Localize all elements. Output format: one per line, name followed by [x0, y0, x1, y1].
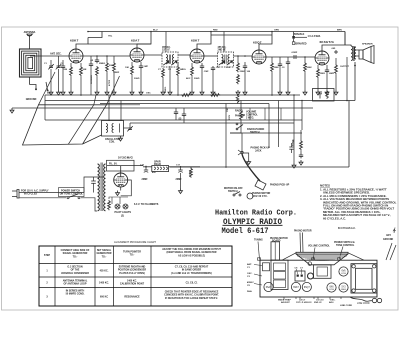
svg-text:(1st AND 2nd I.F. TRANSFORMERS: (1st AND 2nd I.F. TRANSFORMERS)	[171, 272, 212, 275]
svg-text:6SK7: 6SK7	[293, 287, 299, 289]
svg-text:ADJUST: ADJUST	[281, 301, 290, 304]
bus 5	[45, 119, 302, 121]
svg-text:SPEAKER: SPEAKER	[362, 43, 373, 46]
wire output to field	[349, 62, 356, 167]
line cord	[350, 297, 372, 301]
svg-text:BRN-RED: BRN-RED	[296, 43, 307, 46]
B+ bus	[45, 100, 355, 102]
svg-text:250K: 250K	[240, 71, 246, 73]
svg-text:AVC: AVC	[47, 92, 52, 95]
svg-text:ANT.: ANT.	[247, 263, 252, 266]
top bus wire B+	[211, 34, 272, 36]
speaker top view	[296, 252, 348, 264]
svg-text:YEL: YEL	[108, 36, 113, 38]
alignment table	[39, 240, 232, 306]
svg-text:6SK7: 6SK7	[191, 39, 200, 43]
svg-text:DIAL: DIAL	[247, 290, 253, 293]
svg-text:AVC: AVC	[186, 77, 191, 80]
svg-text:JACK: JACK	[255, 149, 262, 152]
wire: loop to V1 grid	[50, 55, 69, 57]
svg-text:GROUND: GROUND	[26, 98, 37, 101]
svg-text:10K: 10K	[125, 67, 129, 69]
svg-text:FIELD: FIELD	[154, 163, 161, 166]
rectifier filament box	[107, 160, 135, 171]
cap on filament bus	[174, 110, 178, 115]
wire switch to jack	[241, 133, 243, 151]
filament bus	[20, 107, 313, 109]
svg-text:RED: RED	[213, 30, 218, 32]
svg-text:ON TONE CONTROL: ON TONE CONTROL	[60, 193, 84, 196]
V2 cathode components	[131, 65, 134, 75]
feedback loop wires	[302, 101, 349, 168]
cap C23	[286, 60, 290, 65]
svg-text:BRN-BLK: BRN-BLK	[294, 33, 305, 36]
svg-text:OSC.: OSC.	[330, 300, 336, 302]
svg-text:PHONO PICK-UP: PHONO PICK-UP	[270, 184, 290, 187]
svg-text:PILOT LIGHTS: PILOT LIGHTS	[115, 211, 132, 214]
1st IF can with trimmers C7 C8	[295, 271, 305, 281]
svg-text:BLU: BLU	[153, 30, 158, 32]
svg-text:47000: 47000	[108, 79, 111, 86]
terminal tags top right	[292, 32, 321, 46]
svg-text:C9 C10: C9 C10	[316, 300, 324, 302]
speaker braces	[282, 253, 364, 260]
tone control resistor	[292, 130, 303, 165]
svg-text:.01MF: .01MF	[291, 52, 298, 54]
svg-text:115V. 60 CYC.: 115V. 60 CYC.	[252, 195, 268, 198]
grid resistor V2	[106, 62, 109, 72]
tube socket 5Y3	[339, 283, 348, 292]
cap C21	[89, 62, 93, 67]
svg-text:RADIO: RADIO	[235, 110, 243, 113]
svg-text:50 MMFD COND.: 50 MMFD COND.	[66, 293, 85, 296]
svg-text:TO:-: TO:-	[130, 254, 135, 257]
svg-text:LINE CORD: LINE CORD	[340, 305, 352, 307]
tube V4 6SQ7	[252, 50, 266, 64]
svg-text:600 KC: 600 KC	[100, 296, 108, 299]
pilot lamps	[108, 197, 159, 218]
power transformer top view	[351, 264, 377, 293]
tube socket 6V6	[339, 267, 348, 276]
svg-text:2MEG: 2MEG	[165, 87, 167, 93]
svg-text:60 CYCLES A.C.: 60 CYCLES A.C.	[338, 227, 356, 230]
cap C20	[61, 64, 65, 69]
gang condenser top view	[271, 260, 288, 289]
svg-text:C3, C8, C1: C3, C8, C1	[186, 282, 198, 285]
svg-text:60 CYCLES, A.C.: 60 CYCLES, A.C.	[323, 216, 346, 220]
wire volume control to bus	[240, 101, 242, 107]
svg-text:15K: 15K	[227, 108, 229, 112]
ground terminal	[46, 82, 49, 92]
notes block	[320, 184, 397, 221]
svg-text:LINE CORD: LINE CORD	[357, 303, 370, 305]
coupling wire to V5	[266, 56, 315, 58]
osc coil ground	[119, 136, 123, 141]
svg-text:6SA7: 6SA7	[131, 39, 140, 43]
svg-text:PHONO: PHONO	[235, 115, 244, 118]
svg-text:TONE CONTROL: TONE CONTROL	[336, 245, 355, 247]
svg-text:VOLUME CONTROL: VOLUME CONTROL	[308, 246, 330, 248]
svg-text:.1MF: .1MF	[204, 71, 210, 73]
wire V2 plate to IFT1	[144, 54, 162, 56]
phono bus wire	[230, 132, 302, 134]
svg-text:300Ω: 300Ω	[134, 78, 140, 80]
svg-text:VARIABLE CONDENSER: VARIABLE CONDENSER	[61, 272, 89, 275]
tube socket 6K6GT	[327, 283, 336, 292]
resistor on avc drop	[236, 95, 239, 104]
svg-text:OSC.: OSC.	[247, 273, 253, 275]
svg-text:ALIGNMENT PROCEDURE CHART: ALIGNMENT PROCEDURE CHART	[114, 240, 156, 244]
volume control	[240, 106, 259, 126]
tube socket 6SK7	[291, 282, 300, 291]
ground lead of loop	[26, 77, 37, 101]
svg-text:ANT. SEC.: ANT. SEC.	[50, 53, 62, 56]
resistor R22	[335, 64, 338, 74]
shielded cable to pickup	[242, 154, 260, 181]
V4 plate load resistor	[271, 62, 274, 72]
osc coil risers	[108, 95, 110, 121]
leader ticks below chassis	[284, 297, 341, 300]
svg-text:.1MF: .1MF	[143, 66, 149, 68]
dial shaft circle	[308, 262, 312, 266]
svg-text:PHONO MOTOR: PHONO MOTOR	[294, 231, 312, 233]
svg-text:GRN: GRN	[274, 30, 279, 32]
osc adj hole	[308, 273, 314, 279]
labels below chassis	[278, 299, 352, 307]
wire volume control bottom	[230, 126, 241, 133]
V5 cathode resistor	[317, 68, 320, 78]
labels left of chassis	[247, 263, 262, 293]
AVC bus	[45, 94, 300, 96]
svg-text:2MEG: 2MEG	[99, 63, 105, 65]
svg-text:COIL: COIL	[109, 140, 115, 143]
bus 3	[100, 103, 269, 105]
svg-text:FIL. 5V.: FIL. 5V.	[109, 163, 118, 166]
svg-text:OSC: OSC	[146, 93, 151, 95]
svg-text:GT/G: GT/G	[329, 289, 334, 291]
svg-text:ANTENNA: ANTENNA	[24, 31, 36, 34]
IFT2 secondary to V4	[234, 55, 253, 57]
svg-text:300Ω: 300Ω	[194, 78, 200, 80]
svg-text:POWER SWITCH &: POWER SWITCH &	[334, 242, 355, 244]
svg-text:500K: 500K	[307, 67, 313, 69]
antenna ground leads top right	[383, 228, 396, 261]
diode load resistors	[237, 62, 240, 72]
svg-text:CALIBRATION POINT: CALIBRATION POINT	[120, 283, 145, 286]
wire V1 plate to V2	[83, 55, 102, 57]
svg-text:GROUND: GROUND	[383, 239, 394, 241]
motor on-off switch	[224, 187, 243, 196]
svg-text:SWITCH: SWITCH	[228, 190, 238, 193]
bus 6	[130, 122, 294, 124]
wire bus middle	[170, 166, 302, 168]
rectifier tube 5Y3	[114, 173, 128, 187]
coupling cap C3	[95, 58, 99, 63]
radio phono switch	[235, 110, 264, 134]
labels above chassis	[254, 227, 356, 260]
tube socket 6SQ7	[302, 282, 311, 291]
svg-text:250K: 250K	[274, 67, 280, 69]
output transformer	[338, 32, 356, 62]
wire to V2 grid	[102, 55, 130, 57]
wire V3 plate to IFT2	[204, 55, 218, 57]
svg-text:5Y3GM/G: 5Y3GM/G	[118, 156, 134, 160]
antenna symbol	[24, 31, 36, 40]
ground on wire 294	[292, 163, 296, 168]
line filter capacitor	[84, 177, 104, 193]
svg-text:STEP: STEP	[44, 254, 51, 257]
svg-text:V.COIL: V.COIL	[190, 169, 192, 177]
svg-text:(2): (2)	[121, 215, 124, 218]
tube socket 6SA7	[264, 282, 273, 291]
capacitor near switch	[289, 143, 293, 153]
value labels top schematic	[44, 43, 373, 178]
left bus verticals	[44, 95, 46, 120]
phono motor	[247, 192, 271, 199]
svg-text:6SA7: 6SA7	[266, 286, 272, 289]
svg-text:455 KC.: 455 KC.	[100, 270, 109, 273]
resistor R20	[113, 62, 116, 72]
tube V3 6SK7 IF	[190, 49, 204, 63]
svg-text:OF ANTENNA LOOP: OF ANTENNA LOOP	[64, 283, 87, 286]
svg-text:20MF: 20MF	[142, 178, 149, 181]
svg-text:6SK7: 6SK7	[70, 39, 79, 43]
svg-text:20MF: 20MF	[176, 178, 183, 181]
svg-text:6K6GT/G: 6K6GT/G	[320, 40, 335, 44]
tube V2 6SA7 converter	[130, 48, 144, 62]
resistor after filter	[190, 168, 193, 178]
svg-text:Model 6-617: Model 6-617	[222, 226, 269, 236]
cap on filament bus 2	[182, 112, 186, 117]
V1 screen resistor	[80, 66, 83, 76]
tone capacitor across primary	[334, 50, 338, 54]
avc bus resistor 2	[210, 94, 220, 97]
svg-text:GM/G: GM/G	[341, 289, 347, 291]
coupling capacitor	[294, 55, 296, 59]
grid resistor V5	[304, 62, 307, 72]
trimmer C2	[56, 64, 62, 69]
svg-text:WAVE TRAP: WAVE TRAP	[278, 299, 291, 302]
svg-text:TO:-: TO:-	[73, 255, 78, 258]
phono pickup head	[255, 180, 290, 190]
avc bus resistor 1	[181, 94, 191, 97]
svg-text:C8 C7: C8 C7	[299, 300, 306, 302]
svg-text:250V: 250V	[229, 114, 231, 120]
wire color labels	[108, 30, 342, 174]
chassis layout	[260, 252, 382, 304]
IFT1 secondary to V3	[178, 54, 190, 56]
tone switch box	[313, 89, 335, 102]
AC plug	[12, 190, 97, 212]
ground arrow far left	[10, 108, 14, 113]
svg-text:1ST I.F. 455 KC.: 1ST I.F. 455 KC.	[296, 301, 313, 304]
svg-text:RESONANCE: RESONANCE	[124, 296, 140, 299]
jack ground	[243, 153, 251, 165]
ground C1 C2	[49, 90, 53, 95]
svg-text:2ND I.F.: 2ND I.F.	[218, 49, 227, 52]
tube V1 6SK7 RF	[69, 49, 83, 63]
trimmer C1	[48, 64, 54, 69]
electrolytic C16	[142, 166, 149, 181]
svg-text:1MEG: 1MEG	[180, 69, 186, 71]
svg-text:2ND I.F.: 2ND I.F.	[314, 302, 322, 304]
svg-text:30K: 30K	[83, 69, 87, 71]
control shafts on chassis top	[258, 258, 261, 260]
svg-text:1.5 A.F.W.B.: 1.5 A.F.W.B.	[308, 35, 322, 38]
svg-text:GT/G: GT/G	[341, 273, 346, 275]
V3 cathode	[191, 66, 194, 76]
padder trimmer	[127, 126, 133, 131]
speaker magnet	[314, 265, 332, 279]
speaker	[356, 46, 374, 64]
svg-text:60 CYCLES: 60 CYCLES	[24, 193, 37, 196]
svg-text:250Ω: 250Ω	[320, 73, 326, 75]
V1 cathode resistor	[70, 66, 73, 76]
svg-text:6.3 V. TO FILAMENTS: 6.3 V. TO FILAMENTS	[134, 203, 159, 206]
IF transformer 1	[162, 52, 178, 67]
svg-text:IF DEVIATION IS TOO LARGE REPE: IF DEVIATION IS TOO LARGE REPEAT STEP 2.	[165, 297, 218, 300]
dial drum	[263, 263, 270, 271]
IF transformer 2	[218, 52, 234, 67]
right bus droppers	[250, 108, 281, 120]
tuning gang condenser	[23, 72, 141, 145]
svg-text:10MF: 10MF	[329, 73, 335, 75]
svg-text:AS LOW AS POSSIBLE): AS LOW AS POSSIBLE)	[178, 254, 205, 257]
cap C22	[211, 66, 215, 71]
svg-text:1400 KC.: 1400 KC.	[99, 282, 109, 285]
oscillator coil	[102, 121, 124, 144]
svg-text:ADJ.: ADJ.	[329, 301, 334, 304]
loop antenna	[20, 40, 51, 77]
tube V5 6K6GT output	[315, 51, 329, 65]
speaker field coil	[152, 161, 169, 172]
svg-text:TO:-: TO:-	[102, 255, 107, 258]
svg-text:ANT.: ANT.	[386, 234, 391, 237]
svg-text:TONE: TONE	[292, 139, 295, 146]
svg-text:TUNING: TUNING	[254, 240, 263, 242]
svg-text:PLATES FULLY OPEN): PLATES FULLY OPEN)	[119, 272, 145, 275]
power transformer	[98, 163, 106, 212]
resistor R21	[162, 68, 165, 78]
V1 plate lead to top wire	[76, 38, 88, 50]
svg-text:OUTPUT: OUTPUT	[340, 66, 350, 68]
phono pickup jack	[238, 147, 270, 156]
svg-text:455KC: 455KC	[247, 281, 254, 284]
electrolytic C17	[176, 166, 183, 194]
svg-text:6SQ7: 6SQ7	[304, 287, 311, 289]
svg-text:BRN: BRN	[337, 30, 342, 32]
wire plate row	[88, 43, 151, 45]
